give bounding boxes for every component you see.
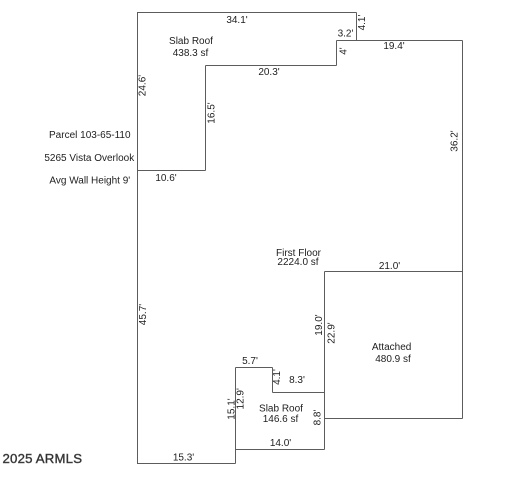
svg-text:2025 ARMLS: 2025 ARMLS <box>3 451 83 466</box>
svg-text:22.9': 22.9' <box>327 322 338 343</box>
svg-text:45.7': 45.7' <box>138 304 149 325</box>
wire 4.1 lower edge <box>272 368 274 393</box>
wire left wall 24.6 + 45.7 <box>137 12 139 464</box>
svg-text:19.4': 19.4' <box>383 41 404 52</box>
svg-text:34.1': 34.1' <box>226 15 247 26</box>
wire right wall 36.2 <box>462 41 464 419</box>
wire 21.0 edge <box>325 271 463 273</box>
wire 15.1 / 12.9 edge <box>235 368 237 464</box>
svg-text:15.3': 15.3' <box>173 453 194 464</box>
wire attached bottom <box>325 418 463 420</box>
svg-text:4.1': 4.1' <box>357 15 368 31</box>
wire 16.5 edge <box>205 66 207 171</box>
wire bottom 15.3 edge <box>137 463 236 465</box>
svg-text:146.6 sf: 146.6 sf <box>263 414 299 425</box>
svg-text:10.6': 10.6' <box>155 173 176 184</box>
svg-text:12.9': 12.9' <box>236 388 247 409</box>
wire 20.3 edge <box>206 65 337 67</box>
svg-text:20.3': 20.3' <box>258 67 279 78</box>
svg-text:Slab Roof: Slab Roof <box>259 404 303 415</box>
svg-text:2224.0 sf: 2224.0 sf <box>277 257 318 268</box>
svg-text:21.0': 21.0' <box>379 261 400 272</box>
svg-text:19.0': 19.0' <box>314 314 325 335</box>
svg-text:4.1': 4.1' <box>272 369 283 385</box>
svg-text:24.6': 24.6' <box>138 75 149 96</box>
svg-text:Avg Wall Height 9': Avg Wall Height 9' <box>49 176 130 187</box>
svg-text:3.2': 3.2' <box>338 29 354 40</box>
wire right step down 4.1 <box>356 13 358 41</box>
svg-text:36.2': 36.2' <box>450 130 461 151</box>
svg-text:438.3 sf: 438.3 sf <box>173 48 209 59</box>
wire 5.7 edge <box>236 367 273 369</box>
wire 10.6 edge <box>137 170 206 172</box>
svg-text:4': 4' <box>339 47 350 55</box>
wire 3.2 + 19.4 edge <box>337 40 463 42</box>
svg-text:5.7': 5.7' <box>242 356 258 367</box>
svg-text:480.9 sf: 480.9 sf <box>375 354 411 365</box>
svg-text:Attached: Attached <box>372 342 411 353</box>
svg-text:8.3': 8.3' <box>289 375 305 386</box>
svg-text:14.0': 14.0' <box>270 438 291 449</box>
wire step down 4 <box>336 41 338 66</box>
svg-text:Parcel 103-65-110: Parcel 103-65-110 <box>49 130 131 141</box>
wire 19.0 / 22.9 edge <box>324 272 326 450</box>
svg-text:8.8': 8.8' <box>313 410 324 426</box>
svg-text:5265 Vista Overlook: 5265 Vista Overlook <box>44 153 135 164</box>
svg-text:Slab Roof: Slab Roof <box>169 36 213 47</box>
wire 8.3 edge <box>273 392 325 394</box>
wire top edge 34.1 <box>137 12 357 14</box>
wire 14.0 edge <box>236 449 325 451</box>
svg-text:16.5': 16.5' <box>207 102 218 123</box>
